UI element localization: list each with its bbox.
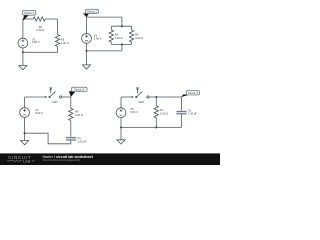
wire source top lead <box>86 17 88 33</box>
label box Circuit_4 <box>71 87 87 91</box>
voltage source V2 <box>18 38 28 48</box>
wire source bottom lead <box>120 118 122 128</box>
svg-text:Circuit_4: Circuit_4 <box>74 88 85 92</box>
wire bottom rail <box>121 126 182 128</box>
wire top rail right segment <box>45 18 57 20</box>
logo LAB line <box>7 160 22 162</box>
label box Circuit_1 <box>22 11 36 16</box>
switch SW1 <box>45 96 47 98</box>
resistor R3 zigzag <box>55 34 59 46</box>
svg-text:5.00 V: 5.00 V <box>130 110 138 114</box>
footer bar <box>0 153 220 165</box>
label callout tail Circuit_3 <box>181 94 189 97</box>
wire R6 to C1 <box>70 121 72 138</box>
svg-text:1.00 µF: 1.00 µF <box>77 140 86 144</box>
wire R7 top lead <box>155 97 157 106</box>
resistor R6 zigzag <box>69 108 73 120</box>
svg-text:C2: C2 <box>188 108 192 112</box>
wire C2 bottom lead <box>181 114 183 127</box>
node dot R7 bottom <box>155 126 157 128</box>
voltage source V5 <box>116 108 126 118</box>
wire source bottom lead <box>22 48 24 52</box>
svg-text:3.00 Ω: 3.00 Ω <box>36 28 44 32</box>
wire source top lead <box>120 97 122 108</box>
wire bottom rail <box>23 51 58 53</box>
label box Circuit_2 <box>85 9 98 13</box>
node junction dot <box>22 51 24 53</box>
wire switch to R7 node <box>149 96 156 98</box>
capacitor C2 <box>176 111 187 115</box>
svg-text:Circuit_3: Circuit_3 <box>188 91 199 95</box>
ground symbol <box>21 141 29 145</box>
wire ground stub <box>120 127 122 139</box>
svg-text:Circuit_1: Circuit_1 <box>24 11 35 15</box>
wire right branch upper <box>70 97 72 108</box>
svg-text:5.00 V: 5.00 V <box>35 111 43 115</box>
svg-text:R6: R6 <box>75 110 79 114</box>
svg-text:6.00 Ω: 6.00 Ω <box>160 111 168 115</box>
label callout tail Circuit_2 <box>83 13 89 17</box>
ground symbol <box>117 140 125 144</box>
wire C1 bottom to rail <box>25 133 71 144</box>
svg-text:SW1: SW1 <box>52 100 58 104</box>
switch SW2 <box>131 96 133 98</box>
svg-text:6.00 Ω: 6.00 Ω <box>75 113 83 117</box>
wire switch to corner <box>62 96 71 98</box>
svg-text:C1: C1 <box>77 136 81 140</box>
label callout tail Circuit_4 <box>69 91 76 97</box>
wire R5 top lead <box>131 26 133 30</box>
node dot bottom center <box>121 43 123 45</box>
node dot top center <box>121 25 123 27</box>
svg-text:2.00 Ω: 2.00 Ω <box>115 36 123 40</box>
wire top-left vertical from source to top rail <box>22 19 24 38</box>
node junction dot <box>24 132 26 134</box>
svg-text:5.00 V: 5.00 V <box>32 40 40 44</box>
wire R4 top lead <box>110 26 112 30</box>
wire parallel rect bottom <box>111 43 131 45</box>
svg-text:R3: R3 <box>61 37 65 41</box>
svg-text:Circuit_2: Circuit_2 <box>87 10 98 14</box>
svg-text:1.00 Ω: 1.00 Ω <box>61 41 69 45</box>
wire R7 bottom lead <box>155 118 157 127</box>
wire ground stub <box>24 133 26 140</box>
wire top rail left segment <box>23 18 33 20</box>
resistor R7 zigzag <box>154 106 158 118</box>
svg-text:R7: R7 <box>160 108 164 112</box>
wire source bottom lead <box>86 43 88 51</box>
node dot R7 top <box>155 96 157 98</box>
capacitor C1 <box>66 137 77 141</box>
wire right branch lower <box>57 47 59 53</box>
svg-text:5.00 V: 5.00 V <box>94 37 102 41</box>
node junction dot <box>85 50 87 52</box>
wire parallel rect top <box>111 25 131 27</box>
ground symbol <box>82 65 90 69</box>
wire ground stub <box>22 52 24 65</box>
wire right branch upper <box>57 19 59 34</box>
label box Circuit_3 <box>186 91 199 95</box>
svg-text:1.00 µF: 1.00 µF <box>188 112 197 116</box>
wire source bottom lead <box>24 117 26 133</box>
resistor R2 zigzag <box>33 17 45 21</box>
wire R5 bottom lead <box>131 42 133 44</box>
svg-text:3.00 Ω: 3.00 Ω <box>135 36 143 40</box>
svg-text:http://circuitlab.com/c6pq5apw: http://circuitlab.com/c6pq5apw4h0j <box>42 159 80 162</box>
voltage source V4 <box>20 108 30 118</box>
wire top rail <box>87 17 122 26</box>
ground symbol <box>19 66 27 70</box>
label callout tail Circuit_1 <box>23 15 29 21</box>
wire source top lead <box>24 97 26 108</box>
resistor R4 zigzag <box>109 30 113 42</box>
wire top rail to switch <box>25 96 46 98</box>
wire top rail to C2 corner <box>156 97 181 111</box>
wire bottom connector <box>87 44 122 51</box>
voltage source V3 <box>82 34 92 44</box>
wire ground stub <box>86 51 88 65</box>
resistor R5 zigzag <box>129 30 133 42</box>
svg-text:LAB: LAB <box>23 159 31 163</box>
svg-text:SW2: SW2 <box>138 100 144 104</box>
node junction dot <box>120 126 122 128</box>
wire R4 bottom lead <box>110 42 112 44</box>
wire top rail to switch <box>121 96 132 98</box>
